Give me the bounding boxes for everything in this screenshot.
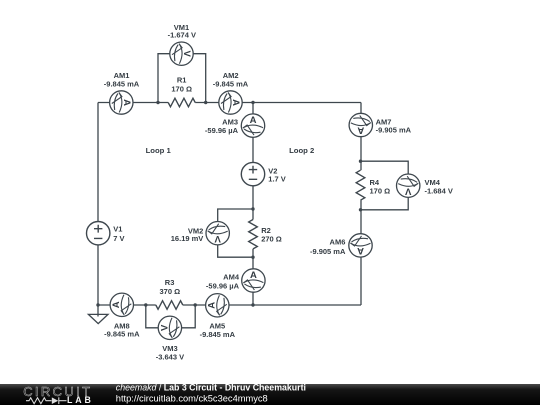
svg-text:V: V <box>215 233 222 244</box>
svg-text:1.7 V: 1.7 V <box>268 175 286 184</box>
svg-text:-1.684 V: -1.684 V <box>425 187 453 196</box>
svg-text:cheemakd / Lab 3 Circuit - Dhr: cheemakd / Lab 3 Circuit - Dhruv Cheemak… <box>116 383 306 393</box>
svg-text:R1: R1 <box>177 75 187 84</box>
svg-text:R3: R3 <box>165 278 175 287</box>
svg-text:Loop 2: Loop 2 <box>289 146 314 155</box>
svg-text:16.19 mV: 16.19 mV <box>171 234 204 243</box>
svg-text:V: V <box>404 185 411 196</box>
svg-text:-9.905 mA: -9.905 mA <box>310 247 346 256</box>
svg-text:-3.643 V: -3.643 V <box>156 352 184 361</box>
svg-text:Loop 1: Loop 1 <box>146 146 172 155</box>
svg-text:170 Ω: 170 Ω <box>370 187 391 196</box>
svg-text:-1.674 V: -1.674 V <box>168 31 196 40</box>
svg-text:-59.96 µA: -59.96 µA <box>205 126 239 135</box>
svg-text:http://circuitlab.com/ck5c3ec4: http://circuitlab.com/ck5c3ec4mmyc8 <box>116 393 268 403</box>
svg-text:R2: R2 <box>261 226 271 235</box>
svg-text:A: A <box>357 245 364 256</box>
svg-text:-9.845 mA: -9.845 mA <box>104 330 140 339</box>
svg-text:A: A <box>250 115 257 126</box>
svg-text:A: A <box>121 99 132 106</box>
svg-text:7 V: 7 V <box>113 234 124 243</box>
svg-text:AM4: AM4 <box>223 272 240 281</box>
svg-text:270 Ω: 270 Ω <box>261 235 282 244</box>
svg-text:A: A <box>111 301 122 308</box>
svg-text:V: V <box>159 324 170 331</box>
svg-text:A: A <box>207 302 218 309</box>
svg-text:V: V <box>181 51 192 58</box>
svg-text:AM6: AM6 <box>330 238 346 247</box>
svg-text:-9.845 mA: -9.845 mA <box>104 79 140 88</box>
svg-text:-9.845 mA: -9.845 mA <box>200 330 236 339</box>
svg-text:-9.845 mA: -9.845 mA <box>213 79 249 88</box>
svg-text:A: A <box>230 99 241 106</box>
svg-text:V1: V1 <box>113 224 122 233</box>
svg-text:-59.96 µA: -59.96 µA <box>206 282 240 291</box>
svg-text:A: A <box>357 125 364 136</box>
svg-text:170 Ω: 170 Ω <box>171 85 192 94</box>
svg-text:-9.905 mA: -9.905 mA <box>376 126 412 135</box>
svg-text:A: A <box>250 270 257 281</box>
svg-text:LAB: LAB <box>67 395 94 405</box>
svg-text:370 Ω: 370 Ω <box>159 287 180 296</box>
